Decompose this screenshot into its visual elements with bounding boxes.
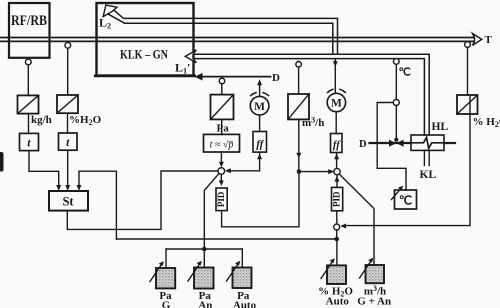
svg-text:An: An <box>198 299 212 308</box>
node tap circle kg/h below RF/RB <box>25 58 31 65</box>
duct L1' heated air return with arrow into dryer <box>185 50 429 135</box>
svg-text:℃: ℃ <box>399 194 412 208</box>
sensor kg/h transducer <box>18 95 52 125</box>
node tap circle %H2O on duct <box>65 41 71 48</box>
svg-text:%H2O: %H2O <box>69 114 102 127</box>
node tap circle Pa below supply line <box>219 78 225 84</box>
wire %H2O sensor to t box <box>67 113 69 133</box>
sensor Pa pressure transducer <box>211 95 234 135</box>
wire circle 2 up into ff2 with arrow <box>334 153 339 169</box>
svg-text:t ≈ √p̅: t ≈ √p̅ <box>210 140 235 151</box>
box t= sqrt p computing element <box>204 134 240 152</box>
wire junction dot to circle 2 with arrow <box>299 169 334 174</box>
wire Pa sensor to sqrt box <box>221 119 223 134</box>
wire kg/h sensor to t box <box>28 114 30 134</box>
svg-text:L1′: L1′ <box>175 61 190 76</box>
setpoint unit Pa Auto <box>227 249 257 308</box>
controller PID2 <box>332 187 343 210</box>
setpoint unit Pa An <box>188 261 214 308</box>
node junction circle 2 (flow control) <box>334 168 340 174</box>
svg-text:Auto: Auto <box>326 295 350 307</box>
duct D supply line into dryer bottom with damper D <box>195 73 271 81</box>
wire junction dot left to St bridge <box>116 238 336 240</box>
wire t2 straight down into St input 2 <box>67 150 69 187</box>
box KLK-GN dryer chamber <box>95 3 194 76</box>
actuator M2 recirculation fan motor <box>327 89 345 111</box>
box St computing unit <box>49 191 88 211</box>
wire St input 3 bridge from PID2 output line <box>79 171 116 239</box>
converter ff1 frequency converter <box>253 132 267 153</box>
wire PID2 down to circle 3 <box>336 211 338 224</box>
svg-text:kg/h: kg/h <box>31 114 52 126</box>
svg-text:HL: HL <box>432 121 449 133</box>
node junction circle 1 (Pa control) <box>218 168 225 175</box>
node junction circle temperature branch <box>393 100 399 106</box>
wire junction dot down to %H2O Auto unit <box>336 239 338 265</box>
wire circle 3 down to junction dot <box>336 230 338 239</box>
sensor m3/h flow transducer <box>288 61 324 129</box>
svg-text:KL: KL <box>420 169 437 181</box>
sensor %H2O exhaust transducer <box>457 95 500 129</box>
wire arrow from ff1 branch into circle 1 <box>225 152 262 173</box>
actuator M1 exhaust damper motor <box>250 79 269 115</box>
wire %H2O feedback into circle 3 with arrow <box>340 95 470 228</box>
svg-text:PID: PID <box>332 191 342 207</box>
wire m3/h sensor down to junction dot with arrow <box>296 119 301 169</box>
duct heating medium D line <box>370 142 456 144</box>
setpoint unit m3/h G+An <box>357 258 391 308</box>
wire RF/RB tap down to kg/h sensor <box>27 65 29 96</box>
wire KL cold stubs below exchanger <box>424 150 429 165</box>
box temperature setpoint adjuster <box>392 186 417 209</box>
svg-text:D: D <box>359 139 367 150</box>
wire circle 2 down to PID2 with arrow up <box>334 175 339 188</box>
wire PID1 output loop to m3/h line junction dot <box>222 174 299 227</box>
svg-text:RF/RB: RF/RB <box>11 13 47 29</box>
svg-text:St: St <box>62 194 74 208</box>
wire branch to temperature setpoint box <box>377 103 406 191</box>
svg-text:G + An: G + An <box>357 295 391 307</box>
wire M2 to ff2 <box>335 112 337 134</box>
wire duct tap down to %H2O sensor <box>67 48 69 95</box>
svg-text:KLK – GN: KLK – GN <box>120 48 168 62</box>
duct L2 exhaust recirculation with arrow <box>103 5 337 54</box>
node junction dot PID2 output <box>334 237 339 242</box>
wire temperature line down to valve <box>395 106 397 139</box>
box RF/RB feed unit <box>9 3 50 58</box>
node tap circle %H2O on duct right <box>465 42 471 95</box>
svg-text:PID: PID <box>216 191 226 207</box>
node tap circle temperature on L1' line <box>393 59 399 100</box>
box t transmitter 1 <box>20 133 39 150</box>
heat exchanger HL/KL <box>411 135 444 150</box>
node junction dot m3/h + PID1 output <box>297 169 302 174</box>
node junction dot Pa setpoint distribution <box>202 247 207 252</box>
controller PID1 <box>216 188 227 211</box>
setpoint unit %H2O Auto <box>318 258 353 307</box>
wire circle 1 down into PID1 with arrow <box>220 174 222 182</box>
converter ff2 frequency converter <box>331 134 343 153</box>
svg-text:Pa: Pa <box>217 123 230 135</box>
wire St output to Pa junction circle <box>67 171 218 229</box>
wire Pa setpoint distribution line <box>166 248 242 250</box>
wire diagonal circle 2 to m3/h G+An unit <box>339 174 374 265</box>
wire bypass junction down to M2 with arrow <box>333 59 338 94</box>
svg-text:M: M <box>331 98 342 110</box>
svg-text:Auto: Auto <box>233 299 257 308</box>
node junction circle 3 (PID2 output) <box>334 224 340 230</box>
wire t1 down then right into St input 1 <box>29 151 59 188</box>
valve on heating medium line <box>389 138 404 147</box>
duct main air line to T <box>0 33 482 45</box>
svg-text:G: G <box>162 299 171 308</box>
svg-text:T: T <box>485 34 493 46</box>
box t transmitter 2 <box>59 133 78 150</box>
svg-text:D: D <box>272 72 280 84</box>
wire diagonal circle1 to setpoint distribution <box>204 174 219 268</box>
wire Pa tap down to Pa sensor <box>221 84 223 95</box>
setpoint unit Pa G <box>150 249 175 308</box>
wire sqrt box down into junction circle 1 with arrow <box>220 152 222 164</box>
scan ink blob left edge <box>0 152 4 172</box>
svg-text:M: M <box>254 101 265 113</box>
svg-text:℃: ℃ <box>399 67 411 79</box>
wire M1 to ff1 <box>259 115 261 132</box>
sensor %H2O transducer <box>57 95 102 127</box>
